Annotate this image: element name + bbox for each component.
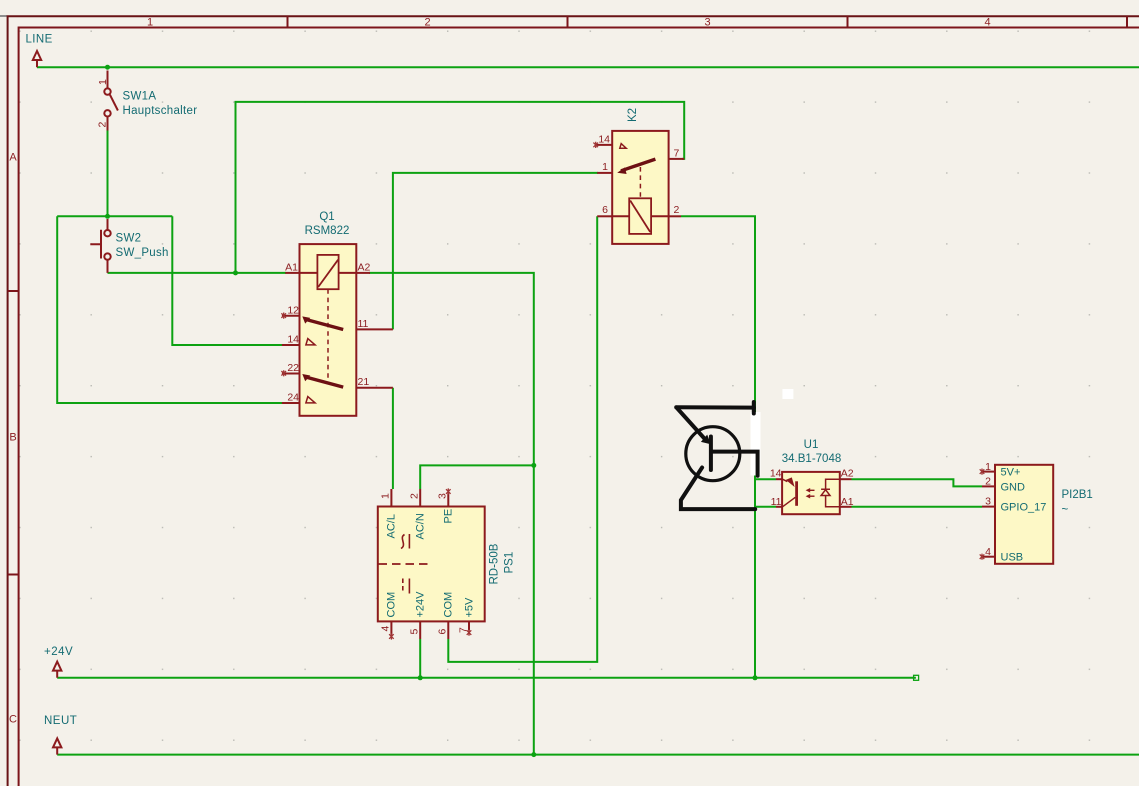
svg-text:AC/N: AC/N bbox=[415, 513, 427, 539]
svg-text:21: 21 bbox=[358, 376, 370, 388]
relay K2 pin 14 DNC mark bbox=[593, 142, 598, 148]
svg-text:24: 24 bbox=[287, 392, 299, 404]
switch SW2 pin stubs bbox=[107, 219, 109, 273]
wire Q1 A2 to vertical and down to NEUT bbox=[369, 273, 534, 755]
wire SW2 to Q1 A1 bbox=[108, 272, 287, 274]
transistor annotation collector lead bbox=[712, 452, 758, 476]
relay K2 pin 14 bbox=[596, 144, 613, 146]
svg-text:14: 14 bbox=[287, 334, 299, 346]
PS1 pin 5 +24V bbox=[419, 621, 421, 639]
junction +24V K2 node bbox=[753, 675, 758, 680]
wire K2 pin2 down to +24V rail bbox=[681, 216, 755, 678]
svg-text:2: 2 bbox=[409, 493, 421, 499]
NEUT arrow bbox=[53, 738, 61, 754]
connector P1ZB1 body bbox=[995, 465, 1053, 564]
svg-text:3: 3 bbox=[704, 17, 710, 29]
svg-text:SW1A: SW1A bbox=[123, 91, 157, 103]
relay K2 pin 6 bbox=[597, 215, 612, 217]
svg-text:PE: PE bbox=[443, 509, 455, 524]
wire horizontal at SW2 junction bbox=[57, 215, 172, 217]
P1ZB1 pin 3 GPIO_17 bbox=[982, 506, 995, 508]
PS1 dashed divider bbox=[379, 563, 429, 565]
relay Q1 pin 24 contact triangle bbox=[306, 397, 315, 403]
PS1 pin 3 DNC mark bbox=[446, 488, 451, 494]
transistor annotation emitter diagonal and lead bbox=[681, 468, 755, 510]
wire PS1 pin6 to K2 pin6 bbox=[448, 216, 597, 662]
U1 pin 11 bbox=[776, 506, 782, 508]
relay K2 pin 14 contact triangle bbox=[620, 144, 626, 149]
wire Q1 pin21 down to PS1 pin1 bbox=[392, 388, 394, 489]
wire +24V rail bbox=[57, 677, 916, 679]
PS1 pin 7 +5V bbox=[468, 621, 470, 630]
svg-text:B: B bbox=[9, 432, 16, 444]
switch SW1A contact circles bbox=[104, 88, 110, 94]
junction LINE/SW1A bbox=[105, 65, 110, 70]
relay Q1 pin 12 bbox=[282, 315, 300, 317]
svg-text:1: 1 bbox=[147, 17, 153, 29]
wire U1 pin14 stub to transistor bbox=[755, 478, 776, 480]
svg-text:+5V: +5V bbox=[464, 597, 476, 618]
U1 photodiode symbol bbox=[821, 479, 840, 507]
relay Q1 pin 14 bbox=[282, 344, 300, 346]
wire left branch to Q1 pin24 bbox=[57, 216, 282, 403]
relay K2 body bbox=[612, 131, 668, 244]
relay K2 dashed link bbox=[639, 167, 641, 198]
optocoupler U1 body bbox=[782, 472, 840, 514]
junction A1 node bbox=[233, 270, 238, 275]
svg-text:1: 1 bbox=[602, 161, 608, 173]
svg-text:11: 11 bbox=[771, 496, 782, 508]
svg-text:Hauptschalter: Hauptschalter bbox=[123, 105, 198, 117]
svg-text:USB: USB bbox=[1001, 552, 1024, 564]
PS1 pin 4 DNC mark bbox=[389, 633, 394, 639]
relay Q1 pin 14 contact triangle bbox=[306, 339, 315, 345]
svg-text:SW2: SW2 bbox=[116, 233, 142, 245]
svg-text:U1: U1 bbox=[804, 439, 819, 451]
relay Q1 coil through-line bbox=[300, 272, 357, 274]
svg-text:RD-50B: RD-50B bbox=[489, 543, 501, 584]
PS1 pin 7 DNC mark bbox=[467, 630, 472, 636]
U1 LED symbol bbox=[783, 479, 788, 481]
PS1 pin 3 PE bbox=[447, 494, 449, 507]
svg-text:22: 22 bbox=[287, 362, 299, 374]
wire U1 A1 to P1ZB1 GPIO_17 bbox=[852, 506, 983, 508]
sheet frame: grey stub top-left bbox=[0, 15, 7, 17]
relay Q1 pin A2 bbox=[356, 272, 370, 274]
svg-text:PI2B1: PI2B1 bbox=[1062, 489, 1093, 501]
white eraser patch over wire bbox=[751, 412, 761, 476]
svg-text:6: 6 bbox=[437, 629, 449, 635]
PS1 AC symbol bbox=[401, 535, 405, 549]
transistor annotation base diagonal with arrow bbox=[677, 408, 705, 439]
transistor annotation base bar bbox=[709, 437, 713, 471]
svg-text:Q1: Q1 bbox=[319, 211, 334, 223]
white eraser patch square bbox=[782, 389, 793, 399]
svg-text:RSM822: RSM822 bbox=[305, 225, 350, 237]
svg-text:2: 2 bbox=[985, 476, 991, 488]
junction AC/N node bbox=[531, 463, 536, 468]
wire NEUT rail bbox=[57, 754, 1139, 756]
relay Q1 pin 11 bbox=[356, 328, 393, 330]
junction NEUT node bbox=[531, 752, 536, 757]
PS1 pin 6 COM bbox=[447, 621, 449, 639]
transistor annotation circle bbox=[686, 427, 740, 481]
svg-text:+24V: +24V bbox=[415, 591, 427, 618]
relay Q1 pin 24 bbox=[282, 402, 300, 404]
relay K2 coil bbox=[629, 198, 651, 234]
svg-text:A1: A1 bbox=[841, 496, 854, 508]
svg-text:A2: A2 bbox=[841, 468, 854, 480]
+24V rail open end square bbox=[914, 675, 919, 680]
relay Q1 contact blade 22-21 bbox=[306, 377, 344, 387]
wire U1 A2 to P1ZB1 GND bbox=[852, 479, 983, 486]
P1ZB1 pin 1 5V+ bbox=[982, 471, 995, 473]
power supply PS1 body bbox=[378, 507, 485, 622]
svg-text:14: 14 bbox=[770, 468, 782, 480]
relay Q1 coil bbox=[317, 255, 338, 289]
PS1 pin 4 COM bbox=[390, 621, 392, 634]
relay Q1 pin 22 bbox=[282, 373, 300, 375]
wire SW1A pin2 down to junction bbox=[107, 130, 109, 217]
svg-text:11: 11 bbox=[358, 318, 369, 330]
P1ZB1 pin 4 DNC mark bbox=[980, 554, 985, 560]
wire LINE rail bbox=[37, 66, 1139, 68]
relay Q1 body bbox=[300, 244, 357, 416]
LINE arrow bbox=[33, 51, 41, 67]
P1ZB1 pin 4 USB bbox=[982, 556, 995, 558]
switch SW1A blade bbox=[110, 95, 118, 111]
switch SW2 contact circles bbox=[104, 230, 110, 236]
PS1 DC symbol bbox=[402, 579, 404, 594]
svg-text:2: 2 bbox=[97, 122, 109, 128]
U1 pin A2 bbox=[840, 478, 852, 480]
svg-text:NEUT: NEUT bbox=[44, 715, 77, 727]
wire junction up over to K2 pin7 bbox=[236, 102, 685, 273]
svg-text:SW_Push: SW_Push bbox=[116, 247, 169, 259]
svg-text:3: 3 bbox=[985, 496, 991, 508]
relay K2 coil through-line bbox=[612, 215, 668, 217]
transistor annotation (black ink) top horizontal bbox=[676, 405, 754, 409]
svg-text:2: 2 bbox=[674, 204, 680, 216]
svg-text:6: 6 bbox=[602, 204, 608, 216]
svg-text:2: 2 bbox=[424, 17, 430, 29]
svg-text:4: 4 bbox=[380, 626, 392, 632]
svg-text:COM: COM bbox=[386, 592, 398, 618]
svg-text:COM: COM bbox=[443, 592, 455, 618]
relay K2 pin 2 bbox=[669, 215, 681, 217]
svg-text:C: C bbox=[9, 714, 17, 726]
svg-text:1: 1 bbox=[97, 79, 109, 85]
relay K2 contact blade 1-7 bbox=[621, 159, 655, 171]
wire right branch to Q1 pin14 bbox=[172, 216, 282, 345]
switch SW1A pin stubs bbox=[107, 71, 109, 131]
svg-text:5V+: 5V+ bbox=[1001, 467, 1021, 479]
wire PS1 pin5 to +24V rail bbox=[419, 639, 421, 678]
svg-text:4: 4 bbox=[985, 546, 991, 558]
U1 pin A1 bbox=[840, 506, 852, 508]
svg-text:GPIO_17: GPIO_17 bbox=[1001, 502, 1047, 514]
wire PS1 pin2 elbow bbox=[420, 465, 534, 489]
P1ZB1 pin 1 DNC mark bbox=[980, 469, 985, 475]
svg-text:A2: A2 bbox=[358, 262, 371, 274]
relay K2 pin 7 bbox=[669, 158, 685, 160]
svg-text:5: 5 bbox=[409, 629, 421, 635]
relay Q1 pin A1 bbox=[285, 272, 299, 274]
U1 pin 14 bbox=[776, 478, 782, 480]
PS1 pin 2 AC/N bbox=[419, 489, 421, 507]
relay Q1 pin 22 DNC mark bbox=[281, 370, 286, 376]
svg-text:A1: A1 bbox=[285, 262, 298, 274]
frame column ticks bbox=[288, 16, 1128, 27]
wire U1 pin11 stub bbox=[755, 506, 776, 508]
svg-text:14: 14 bbox=[598, 134, 610, 146]
svg-text:A: A bbox=[9, 152, 17, 164]
transistor annotation collector tick bbox=[752, 402, 756, 414]
svg-text:~: ~ bbox=[1062, 504, 1069, 516]
wire Q1 pin11 up to K2 pin1 bbox=[393, 173, 598, 330]
svg-text:34.B1-7048: 34.B1-7048 bbox=[782, 453, 841, 465]
junction SW2 node bbox=[105, 214, 110, 219]
relay Q1 contact blade 12-11 bbox=[306, 319, 344, 329]
svg-text:1: 1 bbox=[380, 493, 392, 499]
svg-text:LINE: LINE bbox=[26, 34, 53, 46]
svg-text:7: 7 bbox=[674, 148, 680, 160]
relay Q1 pin 12 DNC mark bbox=[281, 313, 286, 319]
junction +24V pin5 node bbox=[418, 675, 423, 680]
relay K2 pin 1 bbox=[597, 172, 612, 174]
P1ZB1 pin 2 GND bbox=[982, 485, 995, 487]
svg-text:K2: K2 bbox=[627, 108, 639, 122]
svg-text:+24V: +24V bbox=[44, 646, 73, 658]
U1 emission arrows bbox=[808, 489, 815, 491]
svg-text:1: 1 bbox=[985, 461, 991, 473]
relay Q1 pin 21 bbox=[356, 387, 393, 389]
PS1 pin 1 AC/L bbox=[390, 489, 392, 507]
svg-text:GND: GND bbox=[1001, 481, 1026, 493]
switch SW2 push actuator bbox=[90, 230, 101, 259]
svg-text:AC/L: AC/L bbox=[386, 514, 398, 538]
+24V arrow bbox=[53, 662, 61, 678]
relay Q1 dashed link bbox=[327, 289, 329, 380]
frame row ticks bbox=[8, 291, 19, 575]
svg-text:12: 12 bbox=[287, 305, 299, 317]
svg-text:PS1: PS1 bbox=[504, 552, 516, 574]
svg-text:4: 4 bbox=[984, 17, 990, 29]
